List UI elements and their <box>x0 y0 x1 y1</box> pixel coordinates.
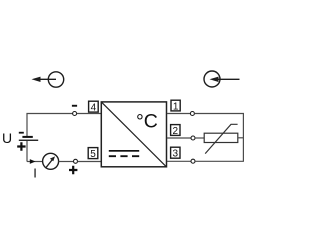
wire: terminal 1 to sensor loop <box>167 113 191 115</box>
node: open circle sensor wire 3 <box>191 159 195 163</box>
transmitter diagonal <box>102 102 166 166</box>
wire: ammeter to bottom terminal circle <box>59 161 74 163</box>
battery B1 long plate <box>19 140 38 141</box>
terminal box 3 <box>171 147 180 159</box>
svg-text:2: 2 <box>173 126 179 137</box>
node: open circle sensor wire 2 <box>191 136 195 140</box>
wire: battery minus down to bottom rail <box>26 141 28 162</box>
wire: circle 1 to right rail <box>194 114 243 162</box>
svg-text:3: 3 <box>173 149 179 160</box>
wire: RTD to right rail <box>238 137 244 139</box>
current direction arrowhead <box>30 159 36 164</box>
wire: terminal 2 to sensor <box>167 137 191 139</box>
svg-text:I: I <box>33 166 37 181</box>
wire: circle 2 to RTD <box>195 137 204 139</box>
RTD diagonal with foot <box>205 124 237 153</box>
svg-text:1: 1 <box>173 101 179 112</box>
node: open circle sensor wire 1 <box>190 112 194 116</box>
RTD sensor RT1 body <box>204 133 238 142</box>
svg-text:U: U <box>2 130 12 146</box>
svg-text:°C: °C <box>136 110 158 132</box>
svg-text:4: 4 <box>91 102 97 113</box>
wire: top left (battery + to terminal 4) <box>27 114 73 137</box>
wire: bottom rail to ammeter <box>27 161 43 163</box>
ammeter needle <box>46 159 53 167</box>
DC symbol dashed line <box>109 155 139 157</box>
node: open terminal circle bottom left <box>74 159 78 163</box>
transmitter body U1 <box>101 102 166 167</box>
wire: circle 3 to right rail <box>195 160 244 162</box>
terminal box 2 <box>171 125 180 137</box>
terminal box 4 <box>89 101 99 113</box>
output signal symbol (circle with left arrow) <box>32 72 64 87</box>
ammeter A1 <box>43 153 59 169</box>
minus polarity mark at terminal 4 <box>72 105 77 107</box>
wire: terminal 3 to sensor loop <box>167 160 191 162</box>
plus polarity mark at terminal 5 <box>69 166 77 174</box>
svg-text:5: 5 <box>90 149 96 160</box>
DC symbol solid line <box>109 150 139 152</box>
terminal box 5 <box>88 148 98 160</box>
battery B1 short plate <box>22 136 32 138</box>
terminal box 1 <box>171 100 180 112</box>
wire: terminal circle to square terminal 4 <box>77 113 101 115</box>
node: open terminal circle top left <box>73 112 77 116</box>
battery B1 plus mark <box>17 142 25 150</box>
input signal symbol (circle with inward arrow) <box>204 71 240 87</box>
wire: terminal circle to square terminal 5 <box>78 161 102 163</box>
battery B1 minus mark <box>19 132 24 134</box>
